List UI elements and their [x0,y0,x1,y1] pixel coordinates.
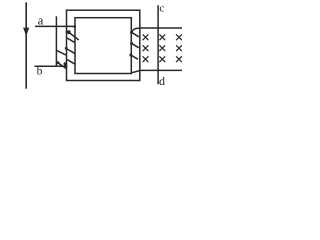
svg-text:c: c [159,3,164,15]
svg-text:b: b [37,65,43,77]
svg-text:a: a [38,14,44,28]
svg-text:d: d [159,74,165,88]
